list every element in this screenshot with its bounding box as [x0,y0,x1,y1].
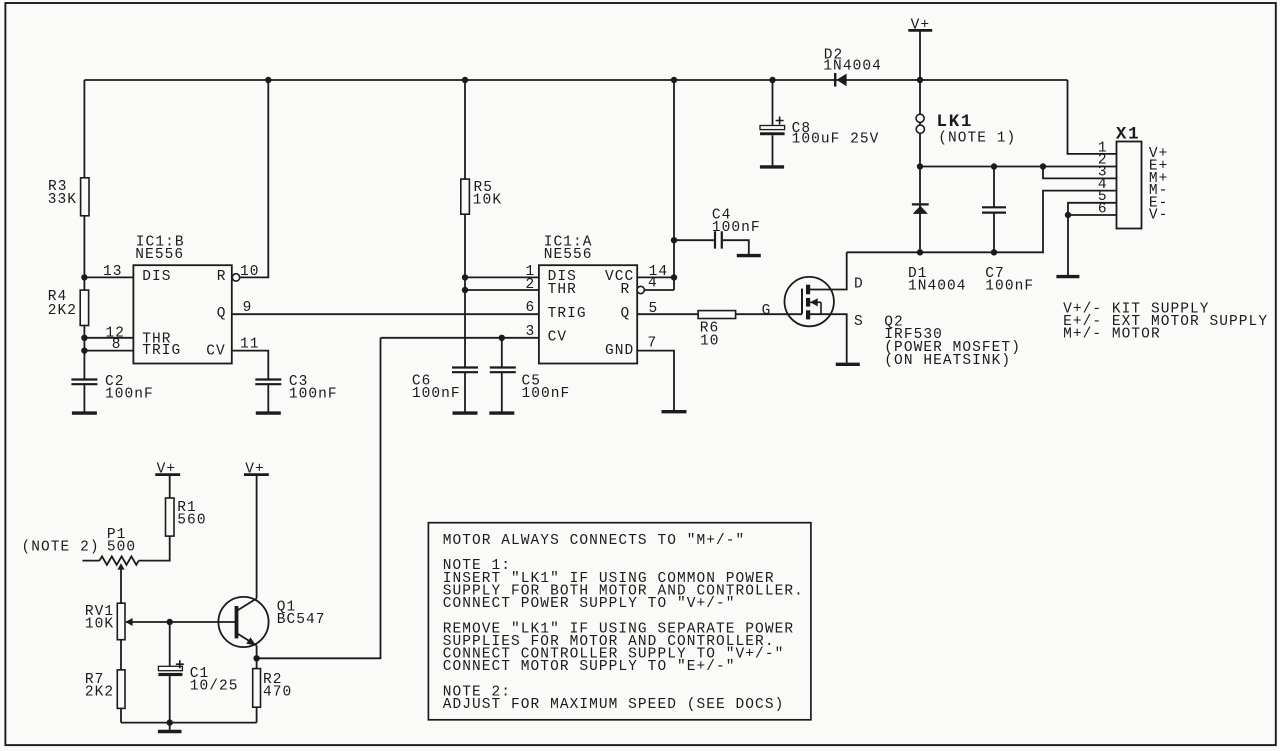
svg-text:100nF: 100nF [522,386,571,402]
power symbol V+ top [908,17,932,33]
junction C7 drain rail [991,249,997,255]
ground at C5 [489,411,514,414]
capacitor C5 [490,368,571,403]
svg-text:CONNECT POWER SUPPLY TO "V+/-": CONNECT POWER SUPPLY TO "V+/-" [443,596,736,612]
junction C4 on VCC column [671,237,677,243]
resistor R5 [461,179,502,214]
wire bottom ground rail [121,722,257,724]
wire X1 pin 5 to ground [1068,203,1117,275]
svg-text:560: 560 [177,513,206,529]
svg-text:ADJUST FOR MAXIMUM SPEED (SEE: ADJUST FOR MAXIMUM SPEED (SEE DOCS) [443,697,785,713]
ground at Q2 source [836,363,860,366]
ground at C6 [453,411,478,414]
capacitor C3 [255,374,337,403]
wire Q1 emitter through R2 [256,646,258,723]
wire C1 bottom lead [169,676,171,723]
wire IC1:A pin 14 VCC [637,276,674,278]
wire LK1 column [919,80,921,167]
svg-text:G: G [762,303,772,319]
IC1:B NE556 timer box [133,235,239,364]
svg-text:470: 470 [263,685,292,701]
wire D1 column [919,167,921,253]
resistor R2 [253,669,293,708]
junction left bus pin 8 [81,347,87,353]
transistor Q1 BC547 [218,597,325,647]
wire V+ through R1 to P1 [139,476,170,561]
svg-text:TRIG: TRIG [142,343,181,359]
svg-text:3: 3 [526,324,536,340]
svg-text:11: 11 [240,337,260,353]
svg-text:10K: 10K [473,193,502,209]
wire IC1:A pin 1 [465,276,539,278]
svg-text:9: 9 [243,300,253,316]
connector X1 [1116,125,1142,229]
wire Q2 source to ground [810,314,847,362]
wire IC1:A pin 4 reset [644,289,674,291]
wire C4 right to ground [723,240,749,254]
wire RV1 wiper to Q1 base [126,621,235,623]
capacitor C7 [982,207,1034,294]
wire VCC column from bus [673,80,675,290]
junction bus/C8 [769,77,775,83]
svg-text:DIS: DIS [142,269,171,285]
svg-text:R: R [621,282,631,298]
junction C7 top rail [991,163,997,169]
wire IC1:B pin 10 to bus [240,80,269,277]
svg-text:CV: CV [548,329,568,345]
potentiometer P1 [99,527,138,570]
wire C6 bottom lead [464,373,466,412]
wire X1 pin1 drop from bus [1068,80,1117,154]
svg-text:TRIG: TRIG [548,306,587,322]
junction X1 pin 6 ground column [1065,212,1071,218]
wire ground stub at C1 [169,723,171,731]
wire C7 top lead [993,167,995,207]
wire left bus R3/R4 column [83,80,85,379]
wire motor supply rail to X1 pin 2 [920,166,1117,168]
wire V+ to Q1 collector [256,476,258,599]
svg-text:100nF: 100nF [289,387,338,403]
svg-text:10/25: 10/25 [190,679,239,695]
svg-text:CV: CV [206,343,226,359]
svg-text:LK1: LK1 [937,112,974,132]
svg-text:R: R [217,269,227,285]
svg-text:6: 6 [1098,201,1108,217]
wire X1 pin 3 link [1043,167,1117,179]
capacitor C4 [712,208,761,249]
svg-text:S: S [854,314,864,330]
svg-text:8: 8 [112,337,122,353]
wire CV to Q1 emitter node [257,338,381,659]
wire P1 left stub [82,560,99,562]
wire IC1:A pin 2 [465,289,539,291]
svg-text:5: 5 [649,301,659,317]
wire IC1:B pin 8 [84,350,133,352]
svg-text:D: D [854,276,864,292]
junction Q1 emitter node [253,655,259,661]
ground at C2 [72,411,97,414]
junction bus/VCC column [671,77,677,83]
junction bus/IC1:B reset column [265,77,271,83]
svg-text:CONNECT MOTOR SUPPLY TO "E+/-": CONNECT MOTOR SUPPLY TO "E+/-" [443,659,736,675]
diode D2 1N4004 [823,47,882,86]
wire P1 wiper drop to RV1 [120,567,122,723]
diode D1 1N4004 [908,204,967,294]
wire IC1:A pin 5 through R6 to gate [637,313,802,315]
mosfet Q2 IRF530 [785,277,1021,369]
svg-text:10: 10 [240,264,260,280]
wire X1 pin 6 [1068,214,1117,216]
resistor R7 [85,670,125,709]
junction LK1 bottom rail [917,163,923,169]
junction C5 on CV wire [499,335,505,341]
capacitor C2 [71,374,153,403]
wire IC1:A pin 7 to ground [637,351,674,411]
svg-text:100nF: 100nF [105,387,154,403]
svg-text:2K2: 2K2 [48,303,77,319]
junction bus/R5 column [462,77,468,83]
ground at IC1:A pin 7 [662,410,687,413]
svg-text:V-: V- [1149,208,1169,224]
capacitor C6 [412,368,478,403]
svg-text:100uF 25V: 100uF 25V [792,132,880,148]
svg-text:1N4004: 1N4004 [908,279,967,295]
svg-text:7: 7 [648,336,658,352]
junction D1 drain rail [917,249,923,255]
wire R5 column bus to C6 [464,80,466,368]
wire IC1:B pin 12 [84,337,133,339]
note box [428,523,811,720]
svg-text:(ON HEATSINK): (ON HEATSINK) [884,353,1011,369]
power symbol V+ above R1 [155,461,180,477]
svg-text:Q: Q [217,306,227,322]
resistor R3 [48,178,89,216]
svg-text:100nF: 100nF [412,386,461,402]
svg-text:THR: THR [548,282,577,298]
power symbol V+ above Q1 [244,461,269,477]
svg-text:2: 2 [526,277,536,293]
junction C1 top on base wire [167,619,173,625]
supply legend text [1063,301,1268,342]
resistor R4 [48,289,89,326]
wire C1 top lead [169,622,171,667]
wire V+ terminal drop [919,32,921,81]
svg-text:GND: GND [605,343,634,359]
wire C5 bottom lead [501,373,503,412]
svg-text:4: 4 [648,276,658,292]
svg-text:NE556: NE556 [544,247,593,263]
wire C7 bottom lead [993,213,995,252]
svg-text:6: 6 [526,300,536,316]
svg-text:X1: X1 [1116,125,1140,145]
trimpot RV1 [85,603,133,640]
svg-text:10: 10 [700,333,720,349]
svg-text:BC547: BC547 [277,612,326,628]
wire top supply bus [84,79,1067,81]
ground at C4 [737,254,761,257]
junction left bus pin 12 [81,335,87,341]
capacitor C8 electrolytic [760,80,879,165]
junction left bus pin 13 [81,274,87,280]
svg-text:13: 13 [103,264,123,280]
svg-text:MOTOR ALWAYS CONNECTS TO "M+/-: MOTOR ALWAYS CONNECTS TO "M+/-" [443,533,746,549]
junction ground on bottom rail [167,719,173,725]
svg-text:33K: 33K [48,192,77,208]
wire IC1:B pin 9 to IC1:A pin 6 [232,313,539,315]
wire C4 branch left [674,239,714,241]
IC1:A NE556 timer box [539,235,645,364]
svg-text:(NOTE 2): (NOTE 2) [22,540,100,556]
svg-text:2K2: 2K2 [85,685,114,701]
wire Q2 drain [810,252,847,289]
svg-text:M+/- MOTOR: M+/- MOTOR [1063,327,1161,343]
wire C3 bottom lead [267,384,269,411]
svg-text:100nF: 100nF [712,220,761,236]
capacitor C1 [158,660,238,694]
wire C5 top lead [501,338,503,368]
resistor R6 [698,311,736,350]
svg-text:500: 500 [107,540,136,556]
wire IC1:A pin 3 CV [381,337,539,339]
junction VCC pin 14 [671,274,677,280]
junction X1 pin3 link rail [1040,163,1046,169]
wire drain rail to X1 pin 4 [847,191,1117,253]
wire IC1:B pin 11 to C3 [232,351,268,380]
resistor R1 [166,498,207,536]
ground at C8 [760,165,784,168]
svg-text:NE556: NE556 [135,247,184,263]
ground at C1 bottom rail [158,730,182,733]
ground at X1 pins 5/6 [1056,275,1079,278]
wire IC1:B pin 13 [84,276,133,278]
ground at C3 [256,411,281,414]
svg-text:Q: Q [621,306,631,322]
svg-text:10K: 10K [85,616,114,632]
junction R5 column pin 1 [462,274,468,280]
svg-text:1N4004: 1N4004 [823,59,882,75]
svg-text:(NOTE 1): (NOTE 1) [938,130,1016,146]
junction bus/V+ [917,77,923,83]
svg-text:100nF: 100nF [985,279,1034,295]
wire C2 bottom lead [83,384,85,411]
jumper link LK1 [916,112,1016,147]
junction R5 column pin 2 [462,287,468,293]
